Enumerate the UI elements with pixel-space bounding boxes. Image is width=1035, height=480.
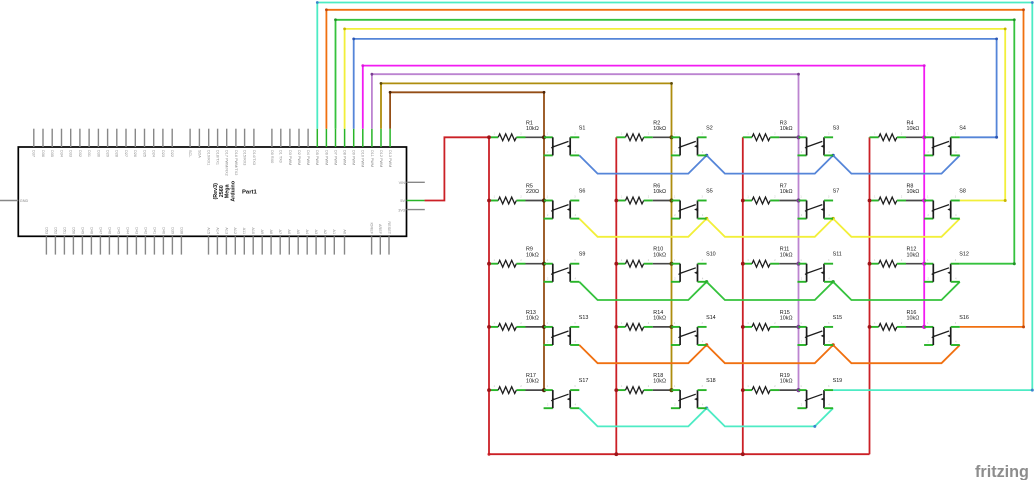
wire 5V column bus 1 — [488, 137, 490, 454]
svg-text:D4 PWM: D4 PWM — [306, 150, 310, 165]
junction bus node S17 — [542, 388, 546, 392]
svg-text:10kΩ: 10kΩ — [907, 126, 920, 132]
wire 5V bottom bus — [489, 453, 870, 455]
svg-text:VIN: VIN — [399, 181, 406, 185]
pin A9 — [261, 236, 263, 254]
wire 5V column bus 4 — [869, 137, 871, 454]
pin D52 — [54, 236, 56, 254]
svg-text:D7 PWM: D7 PWM — [333, 150, 337, 165]
svg-text:A2: A2 — [323, 229, 327, 234]
pin D31 — [88, 129, 90, 147]
pin D1 TX0 — [280, 129, 282, 147]
pin D12 PWM (connected) — [380, 129, 382, 147]
svg-text:A7: A7 — [278, 229, 282, 234]
pin A5 — [297, 236, 299, 254]
svg-text:A8: A8 — [269, 229, 273, 234]
svg-text:S4: S4 — [959, 125, 966, 131]
pushbutton switch S4 — [924, 125, 966, 155]
pin D13 PWM (connected) — [389, 129, 391, 147]
svg-text:D14/TX3: D14/TX3 — [252, 150, 256, 165]
svg-text:10kΩ: 10kΩ — [907, 252, 920, 258]
wire 5V column bus 3 — [742, 137, 744, 454]
pin D2 PWM — [298, 129, 300, 147]
wire row5 output sag 2 — [707, 408, 834, 426]
wire row5 output sag 1 — [579, 408, 706, 426]
svg-text:D50: D50 — [71, 227, 75, 234]
svg-text:Mega: Mega — [225, 183, 231, 198]
pin D15/RX3 — [244, 129, 246, 147]
junction bus node S2 — [669, 135, 673, 139]
pushbutton switch S11 — [797, 252, 841, 282]
junction 5V node R5 — [487, 199, 491, 203]
wire D12 column bus 2 — [380, 82, 673, 390]
pin D17 PWM/RX2 — [226, 129, 228, 147]
svg-text:10kΩ: 10kΩ — [907, 189, 920, 195]
wire row4 output sag 3 — [833, 345, 960, 363]
resistor R2 10kohm — [616, 120, 666, 140]
svg-text:D49: D49 — [80, 227, 84, 234]
junction bus node S18 — [669, 388, 673, 392]
pin D19/RX1 — [208, 129, 210, 147]
junction 5V node R17 — [487, 388, 491, 392]
svg-text:S14: S14 — [706, 315, 716, 321]
svg-text:D8 PWM: D8 PWM — [343, 150, 347, 165]
resistor R16 10kohm — [870, 310, 920, 330]
junction 5V node R7 — [741, 199, 745, 203]
svg-text:D30: D30 — [96, 150, 100, 157]
junction row1 at switch 2 — [705, 154, 708, 157]
wire row1 output sag 1 — [579, 155, 706, 173]
pin D0 RX0 — [271, 129, 273, 147]
wire D13 column bus 1 — [389, 91, 546, 390]
junction 5V node R12 — [868, 262, 872, 266]
svg-text:D19/RX1: D19/RX1 — [207, 150, 211, 165]
junction bus node S9 — [542, 262, 546, 266]
svg-text:A0: A0 — [342, 229, 346, 234]
pushbutton switch S19 — [797, 378, 842, 408]
junction bus node S7 — [796, 198, 800, 202]
junction row3 at switch 3 — [831, 280, 834, 283]
resistor R4 10kohm — [870, 120, 920, 140]
resistor R17 10kohm — [489, 373, 539, 393]
svg-text:A11: A11 — [242, 228, 246, 234]
junction bus node S10 — [669, 262, 673, 266]
pin D50 — [72, 236, 74, 254]
svg-text:D53: D53 — [44, 227, 48, 234]
junction 5V bottom col2 — [614, 452, 618, 456]
wire R18 to column bus — [653, 389, 672, 391]
svg-text:D46: D46 — [107, 227, 111, 234]
junction 5V node R1 — [487, 135, 491, 139]
junction bus node S12 — [922, 262, 926, 266]
svg-text:10kΩ: 10kΩ — [780, 252, 793, 258]
pushbutton switch S8 — [924, 189, 966, 219]
pin D36 — [42, 129, 44, 147]
svg-text:S19: S19 — [833, 378, 843, 384]
svg-text:D2 PWM: D2 PWM — [297, 150, 301, 165]
resistor R7 10kohm — [743, 184, 793, 204]
pin D39 — [171, 236, 173, 254]
wire row2 output sag 2 — [707, 219, 834, 237]
pushbutton switch S12 — [924, 252, 969, 282]
pin A12 — [234, 236, 236, 254]
svg-text:D11 PWM: D11 PWM — [370, 150, 374, 167]
pin D41 — [153, 236, 155, 254]
pushbutton switch S10 — [671, 252, 716, 282]
pin A11 — [243, 236, 245, 254]
svg-text:S12: S12 — [959, 252, 969, 258]
pin D51 — [63, 236, 65, 254]
pin D28 — [116, 129, 118, 147]
pin 5V (connected) — [407, 200, 425, 202]
pin A3 — [315, 236, 317, 254]
junction bus node S19 — [796, 388, 800, 392]
junction row2 at switch 3 — [831, 217, 834, 220]
wire R19 to column bus — [779, 389, 798, 391]
resistor R15 10kohm — [743, 310, 793, 330]
resistor R8 10kohm — [870, 184, 920, 204]
pushbutton switch S14 — [671, 315, 716, 345]
wire row3 output sag 2 — [707, 282, 834, 300]
svg-text:S13: S13 — [579, 315, 589, 321]
svg-text:D22: D22 — [170, 150, 174, 157]
fritzing watermark — [975, 463, 1029, 480]
pin D48 — [90, 236, 92, 254]
junction row5 at switch 2 — [705, 407, 708, 410]
junction row3 at switch 2 — [705, 280, 708, 283]
svg-text:S3: S3 — [833, 125, 840, 131]
wire row5 to pin D5 — [316, 1, 1034, 392]
pin D35 — [51, 129, 53, 147]
junction 5V node R8 — [868, 199, 872, 203]
junction bus node S3 — [796, 135, 800, 139]
pin D5 PWM (connected) — [316, 129, 318, 147]
svg-text:A15: A15 — [206, 227, 210, 234]
svg-text:D41: D41 — [152, 227, 156, 234]
wire R2 to column bus — [653, 136, 672, 138]
pin D10 PWM (connected) — [362, 129, 364, 147]
svg-text:D17 PWM/RX2: D17 PWM/RX2 — [225, 150, 229, 176]
svg-text:D29: D29 — [106, 150, 110, 157]
junction 5V node R13 — [487, 325, 491, 329]
wire R3 to column bus — [779, 136, 798, 138]
junction 5V node R15 — [741, 325, 745, 329]
svg-text:D38: D38 — [179, 227, 183, 234]
junction bus node S6 — [542, 198, 546, 202]
svg-text:S7: S7 — [833, 189, 840, 195]
wire R17 to column bus — [526, 389, 545, 391]
pushbutton switch S7 — [797, 189, 839, 219]
pin GND — [0, 200, 18, 202]
wire row2 to pin D8 — [343, 28, 1007, 203]
pushbutton switch S3 — [797, 125, 839, 155]
junction bus node S1 — [542, 135, 546, 139]
pin D40 — [162, 236, 164, 254]
junction bus node S4 — [922, 135, 926, 139]
svg-text:D48: D48 — [89, 227, 93, 234]
svg-text:D13 PWM: D13 PWM — [388, 150, 392, 167]
svg-text:10kΩ: 10kΩ — [780, 189, 793, 195]
svg-text:D23: D23 — [161, 150, 165, 157]
wire R11 to column bus — [779, 263, 798, 265]
junction bus node S8 — [922, 198, 926, 202]
svg-text:D35: D35 — [50, 150, 54, 157]
junction bus node S16 — [922, 325, 926, 329]
wire R13 to column bus — [526, 326, 545, 328]
junction bus node S14 — [669, 325, 673, 329]
svg-text:S11: S11 — [833, 252, 842, 258]
junction 5V node R10 — [614, 262, 618, 266]
junction 5V node R11 — [741, 262, 745, 266]
pin A14 — [216, 236, 218, 254]
svg-text:D33: D33 — [69, 150, 73, 157]
svg-text:A10: A10 — [251, 227, 255, 234]
pin D30 — [97, 129, 99, 147]
pushbutton switch S13 — [544, 315, 589, 345]
svg-text:S8: S8 — [959, 189, 966, 195]
svg-text:S16: S16 — [959, 315, 969, 321]
svg-text:D42: D42 — [143, 227, 147, 234]
pin D27 — [125, 129, 127, 147]
svg-text:D0 RX0: D0 RX0 — [270, 150, 274, 163]
wire 5V from Part1 to matrix — [425, 137, 489, 200]
svg-text:A1: A1 — [332, 229, 336, 234]
wire row4 to pin D6 — [325, 8, 1025, 328]
pin D37 — [33, 129, 35, 147]
svg-text:A13: A13 — [224, 227, 228, 234]
wire R1 to column bus — [526, 136, 545, 138]
pin D14/TX3 — [253, 129, 255, 147]
resistor R11 10kohm — [743, 247, 793, 267]
svg-text:AREF: AREF — [378, 224, 382, 235]
wire R14 to column bus — [653, 326, 672, 328]
pin D9 PWM (connected) — [353, 129, 355, 147]
svg-text:10kΩ: 10kΩ — [780, 126, 793, 132]
wire row1 output sag 2 — [707, 155, 834, 173]
svg-text:10kΩ: 10kΩ — [907, 316, 920, 322]
junction row4 at switch 3 — [831, 343, 834, 346]
svg-text:D25: D25 — [142, 150, 146, 157]
wire R10 to column bus — [653, 263, 672, 265]
pin A4 — [306, 236, 308, 254]
resistor R18 10kohm — [616, 373, 666, 393]
pin A2 — [324, 236, 326, 254]
svg-text:A6: A6 — [287, 229, 291, 234]
pushbutton switch S2 — [671, 125, 713, 155]
svg-text:D16 PWM/TX2: D16 PWM/TX2 — [234, 150, 238, 175]
resistor R12 10kohm — [870, 247, 920, 267]
svg-text:D18/TX1: D18/TX1 — [216, 150, 220, 165]
pin RESET — [388, 236, 390, 254]
svg-text:D9 PWM: D9 PWM — [352, 150, 356, 165]
svg-text:A3: A3 — [314, 229, 318, 234]
resistor R3 10kohm — [743, 120, 793, 140]
svg-text:D3 PWM: D3 PWM — [288, 150, 292, 165]
wire R8 to column bus — [906, 200, 924, 202]
svg-text:10kΩ: 10kΩ — [780, 379, 793, 385]
svg-text:S1: S1 — [579, 125, 586, 131]
junction 5V node R16 — [868, 325, 872, 329]
pushbutton switch S17 — [544, 378, 589, 408]
pin D33 — [70, 129, 72, 147]
svg-text:10kΩ: 10kΩ — [526, 126, 539, 132]
pin D44 — [126, 236, 128, 254]
svg-text:D34: D34 — [59, 150, 63, 157]
pin D3 PWM — [289, 129, 291, 147]
pushbutton switch S6 — [544, 189, 586, 219]
svg-text:D44: D44 — [125, 227, 129, 234]
wire R4 to column bus — [906, 136, 924, 138]
svg-text:fritzing: fritzing — [975, 463, 1029, 480]
svg-text:D37: D37 — [32, 150, 36, 157]
svg-text:S18: S18 — [706, 378, 716, 384]
junction row5 bend near S19 — [813, 425, 816, 428]
svg-text:10kΩ: 10kΩ — [653, 316, 666, 322]
svg-text:10kΩ: 10kΩ — [653, 379, 666, 385]
junction 5V bottom-left corner — [488, 453, 491, 456]
pin D16 PWM/TX2 — [235, 129, 237, 147]
pin D4 PWM — [307, 129, 309, 147]
svg-text:10kΩ: 10kΩ — [526, 316, 539, 322]
svg-text:D1 TX0: D1 TX0 — [279, 150, 283, 163]
svg-text:10kΩ: 10kΩ — [653, 189, 666, 195]
pin VIN — [407, 181, 425, 183]
pin D46 — [108, 236, 110, 254]
pin A7 — [279, 236, 281, 254]
svg-text:SCL: SCL — [188, 150, 192, 157]
pin A10 — [252, 236, 254, 254]
svg-text:GND: GND — [20, 199, 29, 203]
svg-text:10kΩ: 10kΩ — [653, 126, 666, 132]
pin 3V3 — [407, 209, 425, 211]
svg-text:Arduino: Arduino — [230, 180, 236, 201]
pin D24 — [153, 129, 155, 147]
svg-text:A14: A14 — [215, 227, 219, 234]
pin D47 — [99, 236, 101, 254]
svg-text:S17: S17 — [579, 378, 589, 384]
pin IOREF — [371, 236, 373, 254]
junction bus node S15 — [796, 325, 800, 329]
pin D53 — [45, 236, 47, 254]
pin D26 — [134, 129, 136, 147]
resistor R10 10kohm — [616, 247, 666, 267]
junction 5V bottom col3 — [741, 452, 745, 456]
pushbutton switch S16 — [924, 315, 969, 345]
svg-text:D36: D36 — [41, 150, 45, 157]
wire D10 column bus 4 — [361, 64, 925, 327]
svg-text:10kΩ: 10kΩ — [526, 379, 539, 385]
wire row3 to pin D7 — [334, 18, 1016, 265]
pin D43 — [135, 236, 137, 254]
junction bus node S13 — [542, 325, 546, 329]
svg-text:(Rev3): (Rev3) — [213, 183, 219, 200]
svg-text:5V: 5V — [400, 199, 405, 203]
junction 5V node R18 — [614, 388, 618, 392]
junction 5V node R9 — [487, 262, 491, 266]
wire R9 to column bus — [526, 263, 545, 265]
pin D22 — [171, 129, 173, 147]
svg-text:D39: D39 — [170, 227, 174, 234]
junction row2 at switch 2 — [705, 217, 708, 220]
svg-text:D12 PWM: D12 PWM — [379, 150, 383, 167]
wire R12 to column bus — [906, 263, 924, 265]
svg-text:D43: D43 — [134, 227, 138, 234]
resistor R1 10kohm — [489, 120, 539, 140]
svg-text:D6 PWM: D6 PWM — [324, 150, 328, 165]
svg-text:D47: D47 — [98, 227, 102, 234]
pin D42 — [144, 236, 146, 254]
junction 5V node R14 — [614, 325, 618, 329]
pin D32 — [79, 129, 81, 147]
svg-text:D40: D40 — [161, 227, 165, 234]
svg-text:10kΩ: 10kΩ — [526, 252, 539, 258]
pushbutton switch S18 — [671, 378, 716, 408]
junction bus node S5 — [669, 198, 673, 202]
svg-text:A4: A4 — [305, 229, 309, 234]
pushbutton switch S1 — [544, 125, 586, 155]
wire row4 output sag 2 — [707, 345, 834, 363]
junction row4 at switch 2 — [705, 343, 708, 346]
svg-text:S9: S9 — [579, 252, 586, 258]
svg-text:D5 PWM: D5 PWM — [315, 150, 319, 165]
pin A8 — [270, 236, 272, 254]
wire R7 to column bus — [779, 200, 798, 202]
svg-text:S2: S2 — [706, 125, 713, 131]
svg-text:S10: S10 — [706, 252, 716, 258]
pin D25 — [144, 129, 146, 147]
svg-text:10kΩ: 10kΩ — [653, 252, 666, 258]
pushbutton switch S15 — [797, 315, 842, 345]
wire 5V column bus 2 — [615, 137, 617, 454]
pin D7 PWM (connected) — [335, 129, 337, 147]
pushbutton switch S9 — [544, 252, 586, 282]
svg-text:D27: D27 — [124, 150, 128, 157]
resistor R13 10kohm — [489, 310, 539, 330]
svg-text:10kΩ: 10kΩ — [780, 316, 793, 322]
pushbutton switch S5 — [671, 189, 713, 219]
wire row3 output sag 1 — [579, 282, 706, 300]
junction row1 at switch 3 — [831, 154, 834, 157]
svg-text:D28: D28 — [115, 150, 119, 157]
microcontroller Part1 Arduino Mega 2560 — [0, 129, 425, 255]
svg-text:220Ω: 220Ω — [526, 189, 539, 195]
svg-text:RESET: RESET — [387, 221, 391, 234]
svg-text:S6: S6 — [579, 189, 586, 195]
wire row4 output sag 1 — [579, 345, 706, 363]
resistor R9 10kohm — [489, 247, 539, 267]
svg-text:3V3: 3V3 — [398, 208, 405, 212]
pin D6 PWM (connected) — [325, 129, 327, 147]
pin D49 — [81, 236, 83, 254]
svg-text:D15/RX3: D15/RX3 — [243, 150, 247, 165]
junction 5V node R6 — [614, 199, 618, 203]
wire R16 to column bus — [906, 326, 924, 328]
resistor R14 10kohm — [616, 310, 666, 330]
svg-text:Part1: Part1 — [242, 189, 257, 195]
svg-text:A5: A5 — [296, 229, 300, 234]
svg-text:D26: D26 — [133, 150, 137, 157]
wire R5 to column bus — [526, 200, 545, 202]
pin D38 — [180, 236, 182, 254]
pin A13 — [225, 236, 227, 254]
resistor R5 220ohm — [489, 184, 539, 204]
wire row2 output sag 1 — [579, 219, 706, 237]
pin A6 — [288, 236, 290, 254]
pin A1 — [333, 236, 335, 254]
wire D11 column bus 3 — [371, 73, 800, 390]
wire row3 output sag 3 — [833, 282, 960, 300]
pin D29 — [107, 129, 109, 147]
